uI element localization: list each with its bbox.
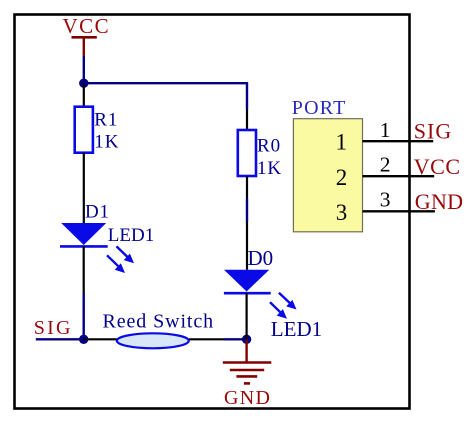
ground GND: [223, 339, 271, 409]
node A junction: [79, 79, 88, 88]
svg-text:1: 1: [336, 130, 348, 155]
connector PORT: [292, 97, 363, 232]
svg-text:R0: R0: [257, 136, 281, 157]
wire R0 to D0: [246, 199, 248, 223]
wire VCC to node A: [83, 56, 85, 83]
net label GND (port): [415, 189, 464, 214]
svg-text:1K: 1K: [94, 132, 119, 153]
svg-text:GND: GND: [415, 189, 464, 214]
svg-text:VCC: VCC: [414, 154, 461, 179]
svg-text:SIG: SIG: [414, 119, 452, 144]
svg-text:D0: D0: [248, 246, 274, 270]
LED D0: [224, 222, 322, 341]
wire SIG stub: [36, 338, 84, 340]
resistor R0: [238, 110, 282, 199]
wire reed to node C: [224, 338, 247, 340]
border frame: [15, 15, 410, 409]
pin 3: [363, 188, 435, 212]
pin 1: [363, 118, 434, 142]
svg-text:3: 3: [336, 200, 348, 225]
svg-text:2: 2: [380, 153, 391, 177]
power VCC: [63, 14, 111, 56]
svg-text:Reed Switch: Reed Switch: [103, 311, 215, 333]
wire node A to R0 branch: [84, 83, 247, 109]
net label VCC (port): [414, 154, 461, 179]
resistor R1: [75, 83, 120, 223]
node B junction: [79, 335, 88, 344]
LED D1: [60, 202, 154, 274]
svg-text:VCC: VCC: [63, 14, 111, 38]
svg-text:GND: GND: [224, 387, 271, 409]
svg-text:1: 1: [380, 118, 391, 142]
net label SIG: [34, 317, 73, 339]
wire D1 to SIG node: [83, 246, 85, 339]
svg-text:SIG: SIG: [34, 317, 73, 339]
node C junction: [242, 335, 251, 344]
svg-text:D1: D1: [85, 202, 110, 223]
svg-text:1K: 1K: [257, 158, 282, 179]
svg-text:PORT: PORT: [292, 97, 347, 119]
svg-text:LED1: LED1: [108, 225, 154, 246]
svg-text:3: 3: [380, 188, 391, 212]
svg-text:LED1: LED1: [271, 317, 322, 341]
reed switch S1: [84, 311, 224, 349]
wire D0 to node C: [246, 293, 248, 339]
net label SIG (port): [414, 119, 452, 144]
svg-text:R1: R1: [94, 110, 118, 131]
svg-text:2: 2: [336, 165, 348, 190]
pin 2: [363, 153, 435, 177]
